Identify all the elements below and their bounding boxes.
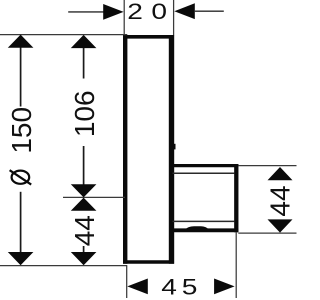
extension line top-right (depth 20, front side) <box>173 0 175 35</box>
escutcheon plate right edge clip detail <box>174 144 176 150</box>
dimension line diameter 150 lower segment <box>20 192 22 253</box>
extension line 44 right top <box>238 165 296 167</box>
extension line top-left (depth 20, wall side) <box>123 0 125 35</box>
svg-text:44: 44 <box>69 215 100 246</box>
svg-text:44: 44 <box>265 185 296 216</box>
arrowhead down 44 right <box>268 219 293 232</box>
escutcheon plate top edge <box>123 35 174 39</box>
arrowhead up 44 right <box>268 167 293 180</box>
extension line top for diameter 150 <box>0 34 127 36</box>
dimension line diameter 150 upper segment <box>20 47 22 107</box>
extension line 44 right bottom <box>238 232 296 234</box>
extension line valve centerline left <box>63 196 125 198</box>
diameter symbol slash <box>10 170 32 184</box>
arrowhead down diameter 150 <box>8 252 34 265</box>
arrowhead right 45 <box>214 279 235 295</box>
extension line bottom baseline for diameter 150 <box>0 265 127 267</box>
leader line right of 20 dimension <box>195 10 224 12</box>
arrowhead down 44 left <box>71 252 97 265</box>
svg-text:106: 106 <box>69 90 100 137</box>
extension line 45 left <box>126 266 128 298</box>
valve box inner line top <box>173 172 235 174</box>
svg-text:45: 45 <box>161 275 202 300</box>
dimension line 106 lower segment <box>83 146 85 185</box>
escutcheon plate bottom edge <box>123 260 174 264</box>
diameter symbol circle <box>12 171 30 184</box>
arrowhead up 106 <box>71 35 97 48</box>
valve box bottom edge bump detail <box>185 226 209 229</box>
arrowhead down 106 (hourglass top) <box>71 184 97 197</box>
arrowhead left 45 <box>127 279 148 295</box>
arrowhead up 44 left (hourglass bottom) <box>71 198 97 211</box>
escutcheon plate left edge <box>123 35 127 264</box>
valve box right edge <box>234 164 238 232</box>
valve box inner line bottom <box>173 220 235 222</box>
arrowhead pointing left at 20 dimension <box>174 3 195 19</box>
escutcheon plate right edge <box>169 35 174 264</box>
svg-text:20: 20 <box>127 0 175 25</box>
leader line left of 20 dimension <box>68 11 104 13</box>
dimension line 106 upper segment <box>83 47 85 78</box>
svg-text:150: 150 <box>6 107 37 154</box>
valve box bottom edge <box>171 228 238 232</box>
valve box top edge <box>171 164 238 167</box>
dimension line 44 left lower stub <box>83 246 85 253</box>
extension line 45 right <box>235 232 237 298</box>
arrowhead pointing right at 20 dimension <box>103 4 123 20</box>
arrowhead up diameter 150 <box>8 35 34 48</box>
